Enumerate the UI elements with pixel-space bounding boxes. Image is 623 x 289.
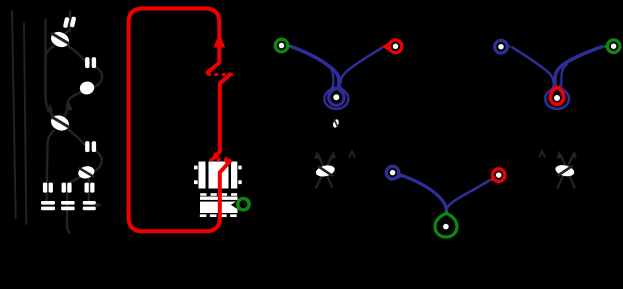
- small red arrow right at coil top: [225, 157, 232, 163]
- armature end notch: [231, 200, 238, 209]
- bead B2: section insulator bead: [85, 141, 96, 152]
- center white dot: [443, 224, 449, 230]
- armature bar (white): [200, 193, 238, 217]
- dashed line along coil top with arrow: [210, 158, 226, 161]
- wire: return strand hugging thick curve: [326, 64, 333, 88]
- center terminal: red teardrop ring: [550, 87, 563, 104]
- housing dashes right: [238, 166, 241, 170]
- pivot ring (green): [238, 199, 249, 210]
- shoe ellipse: [315, 164, 336, 179]
- armature dashed outline below: [200, 214, 207, 217]
- solenoid coil housing (white bars): [194, 162, 242, 189]
- terminal: red teardrop right: [489, 169, 505, 184]
- switch blade lower contact: [214, 75, 230, 159]
- wire: return strand hugging thick curve: [561, 64, 567, 86]
- wire: from E2 right to bead B2: [68, 129, 85, 145]
- terminal: blue teardrop left: [386, 166, 401, 181]
- wire: blue from red terminal: [447, 180, 490, 211]
- ellipse E4: contact shoe with bar: [77, 164, 96, 180]
- wire: straight overhead wire 1: [12, 11, 16, 218]
- wire: from E4 down-left vertical to bottom: [67, 178, 80, 233]
- center hanger: outer blue loop: [545, 84, 569, 109]
- terminal: blue teardrop left: [495, 40, 512, 53]
- tick pair group 2: [62, 183, 66, 193]
- equals group 3: [83, 201, 96, 205]
- switch arrowhead at kink: [212, 152, 220, 161]
- chevron arrow right of symbol A: [349, 151, 355, 157]
- leg rising right: [316, 155, 333, 189]
- wire: left leg from crossing E1 down to E2: [46, 47, 56, 119]
- armature dashed outline above: [200, 193, 206, 196]
- chevron arrow left of symbol B: [539, 151, 545, 157]
- wire: arc from bead B2 to ellipse E4: [93, 151, 102, 172]
- wire: straight overhead wire 2: [24, 23, 26, 224]
- mini contact shoe below group 1: [332, 119, 340, 129]
- center hanger: outer blue loop: [324, 84, 348, 109]
- equals group 1: [41, 201, 55, 205]
- red arrow up on right branch: [213, 33, 225, 48]
- arrow: travel direction on left leg: [47, 104, 54, 113]
- leg rising left: [318, 155, 332, 188]
- symbol B: pole shoe through frog, crossed wires with arrows: [554, 150, 577, 188]
- center terminal: green teardrop ring: [435, 213, 457, 237]
- center terminal: blue inner teardrop ring: [329, 88, 344, 105]
- wire: from E3 down to E2: [61, 93, 81, 121]
- terminal: red teardrop right: [382, 40, 402, 53]
- section insulator ticks row (three pairs): [43, 183, 95, 193]
- tick pair group 1: [43, 183, 47, 193]
- terminal: green teardrop right: [603, 40, 620, 53]
- ellipse E3: contact shoe: [79, 80, 96, 96]
- tick pair group 3: [85, 183, 89, 193]
- wire: feed wire into top crossing: [66, 11, 70, 33]
- red circuit main loop wire: [129, 9, 230, 232]
- section insulator equals row (three pairs): [41, 201, 96, 210]
- center white dot: [333, 94, 339, 100]
- wire: thin blue from red terminal into neck: [340, 48, 382, 84]
- leg rising right: [557, 155, 573, 189]
- wire: from E1 right to bead B1: [67, 45, 85, 61]
- runner ticks: top contact shoe marks: [63, 16, 76, 28]
- wire: blue from blue terminal: [400, 175, 446, 212]
- equals group 2: [61, 201, 75, 205]
- symbol A: pole shoe through frog, crossed wires with arrows: [314, 151, 336, 189]
- insulator E1: contact shoe ellipse with bar: [49, 29, 72, 50]
- insulator E2: contact shoe ellipse with bar: [49, 113, 72, 134]
- wire: vertical feeder joining left leg: [44, 20, 46, 97]
- wire: thick blue from green terminal: [291, 46, 339, 87]
- terminal: green teardrop left: [275, 39, 292, 52]
- wire: thin blue from blue terminal into neck: [512, 47, 554, 84]
- shoe ellipse: [554, 163, 575, 178]
- bead B1: section insulator bead: [85, 57, 96, 68]
- wire: arc from bead B1 to ellipse E3: [93, 67, 102, 88]
- arrow: small right arrow near equals group: [96, 202, 102, 208]
- arrow: travel direction on middle leg: [66, 102, 73, 111]
- housing dashes left: [194, 166, 198, 170]
- wire: thick blue from green terminal: [555, 46, 603, 86]
- switch dashed throw line: [207, 73, 233, 76]
- center white dot: [554, 95, 560, 101]
- wire: vertical under E4: [88, 179, 90, 204]
- wire: from E2 down-left vertical to bottom: [47, 131, 54, 201]
- leg rising left: [561, 155, 575, 189]
